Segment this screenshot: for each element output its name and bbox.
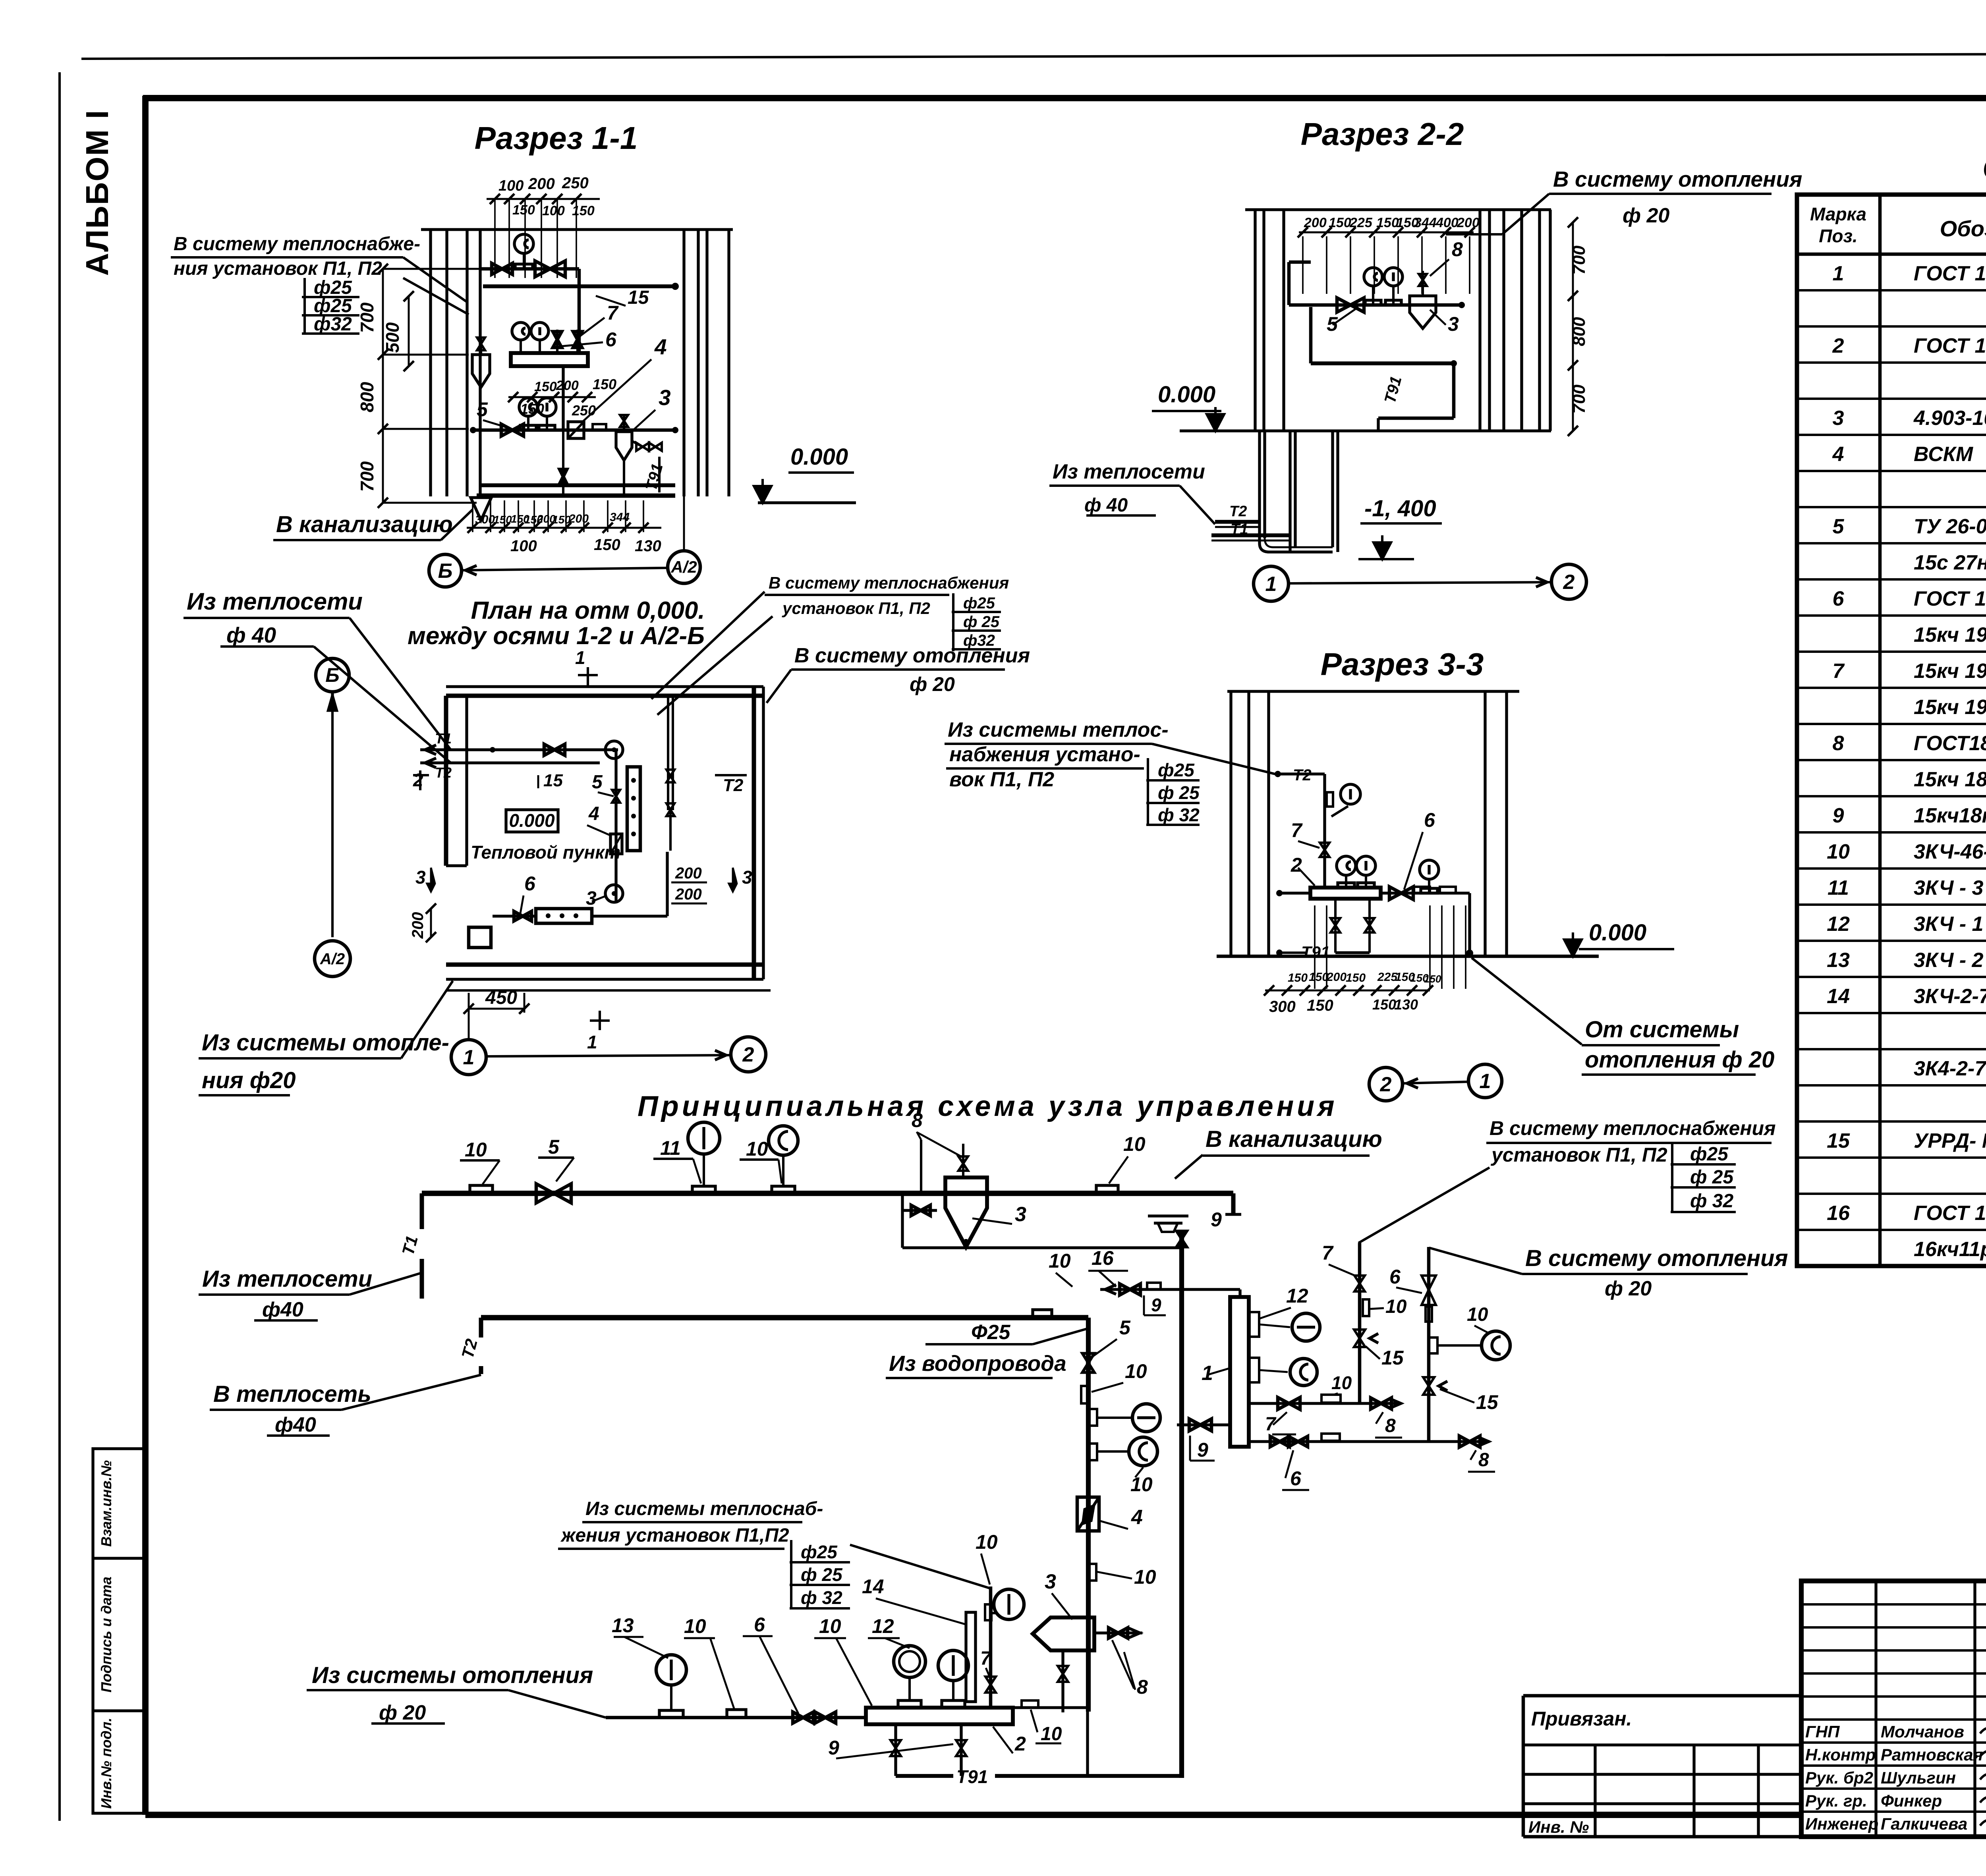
specification table grid: [1797, 195, 1986, 1266]
svg-text:ТУ 26-03-1221-79: ТУ 26-03-1221-79: [1914, 515, 1986, 538]
svg-text:9: 9: [828, 1737, 839, 1759]
svg-text:В канализацию: В канализацию: [1206, 1126, 1382, 1152]
pipe R1 from collector: [1249, 1402, 1401, 1405]
svg-text:Инв. №: Инв. №: [1528, 1818, 1589, 1836]
bypass with valve: [901, 1191, 904, 1248]
svg-text:10: 10: [1467, 1304, 1488, 1325]
component 4 (meter): [1077, 1497, 1099, 1531]
pipe R2 from collector: [1249, 1440, 1489, 1443]
bottom dimension chain: [467, 527, 661, 529]
svg-text:Из системы теплоснаб-: Из системы теплоснаб-: [585, 1498, 823, 1519]
svg-text:400: 400: [1435, 215, 1459, 230]
svg-text:6: 6: [524, 872, 536, 895]
svg-text:ф 20: ф 20: [1623, 204, 1669, 227]
svg-text:3КЧ - 2 - 75: 3КЧ - 2 - 75: [1914, 949, 1986, 972]
dirt trap left: [472, 355, 490, 387]
svg-text:вок П1, П2: вок П1, П2: [949, 768, 1054, 791]
dirt trap 3 bottom (left point): [1033, 1617, 1094, 1650]
title block left grid: [1874, 1581, 1877, 1837]
section 1-1 floor: [477, 494, 675, 498]
below floor pipes 2-2: [1258, 431, 1261, 543]
gauge 13: [659, 1710, 683, 1718]
svg-text:2: 2: [742, 1043, 754, 1066]
svg-text:12: 12: [1286, 1285, 1308, 1307]
svg-text:6: 6: [1833, 587, 1845, 610]
manifold 2: [866, 1708, 1013, 1724]
svg-text:ф40: ф40: [275, 1413, 316, 1436]
dirt trap 2-2: [1410, 296, 1436, 328]
section 2-2 pipe2: [1311, 361, 1454, 365]
projection lines: [1314, 905, 1316, 989]
svg-text:ф25: ф25: [963, 594, 995, 612]
svg-text:2: 2: [1380, 1073, 1392, 1096]
svg-text:500: 500: [382, 322, 403, 353]
svg-text:Марка: Марка: [1810, 204, 1866, 224]
drain funnel below floor: [471, 498, 491, 520]
svg-text:100: 100: [510, 537, 537, 555]
svg-text:В систему отопления: В систему отопления: [1553, 167, 1802, 191]
svg-text:ф 32: ф 32: [801, 1587, 842, 1608]
svg-text:ГОСТ 10704-76*: ГОСТ 10704-76*: [1914, 334, 1986, 357]
bottom drain pipe 1-1: [481, 483, 675, 487]
svg-text:225: 225: [1349, 215, 1373, 230]
svg-text:1: 1: [1265, 573, 1277, 596]
plan collector: [627, 767, 640, 851]
svg-text:Из теплосети: Из теплосети: [1053, 460, 1205, 483]
svg-text:5: 5: [592, 772, 603, 793]
svg-text:15: 15: [1381, 1347, 1404, 1369]
svg-text:100: 100: [542, 203, 565, 218]
svg-text:130: 130: [1394, 996, 1418, 1013]
svg-text:8: 8: [1478, 1449, 1489, 1471]
svg-text:Т2: Т2: [1229, 503, 1247, 520]
tick 10: [1081, 1386, 1088, 1403]
svg-text:ГОСТ 19501 - 74: ГОСТ 19501 - 74: [1914, 1202, 1986, 1225]
svg-text:16: 16: [1092, 1247, 1114, 1269]
plan right pipes: [667, 696, 669, 810]
3-3 bubbles: [1369, 1067, 1403, 1101]
valve below trap: [1061, 1650, 1064, 1712]
svg-text:ф 20: ф 20: [1605, 1277, 1652, 1300]
svg-text:ф40: ф40: [262, 1298, 303, 1321]
section 2-2 ceiling: [1245, 208, 1551, 211]
plan pipe size stack: [952, 593, 954, 651]
right pipe size stack: [1671, 1143, 1673, 1212]
svg-text:250: 250: [562, 174, 589, 192]
svg-text:Молчанов: Молчанов: [1881, 1722, 1964, 1741]
pipe1 gauges 2-2: [1372, 286, 1374, 305]
tick and gauge: [1327, 792, 1333, 807]
svg-text:3: 3: [586, 888, 597, 909]
svg-text:ф 25: ф 25: [801, 1564, 843, 1585]
svg-text:15: 15: [543, 771, 563, 790]
svg-text:10: 10: [1134, 1566, 1156, 1588]
svg-text:Рук. гр.: Рук. гр.: [1805, 1791, 1867, 1810]
svg-text:344: 344: [610, 511, 630, 524]
svg-text:Тепловой пункт: Тепловой пункт: [471, 842, 620, 863]
T91 stub: [1276, 950, 1283, 956]
inner frame: [143, 95, 1986, 101]
svg-text:1: 1: [1833, 262, 1844, 285]
axis bubbles B A2: [429, 554, 462, 587]
svg-text:План на отм 0,000.: План на отм 0,000.: [471, 597, 705, 624]
svg-text:Т1: Т1: [1231, 521, 1248, 538]
svg-text:ф 20: ф 20: [379, 1701, 426, 1724]
svg-text:ВСКМ: ВСКМ: [1914, 443, 1974, 466]
svg-text:6: 6: [754, 1614, 765, 1636]
shtucer on T2: [1033, 1310, 1052, 1317]
lower gauges: [527, 417, 529, 430]
valve 9 stub to collector: [1177, 1423, 1230, 1426]
svg-text:8: 8: [1137, 1676, 1148, 1698]
tick 10 bottom: [727, 1710, 746, 1718]
svg-text:150: 150: [593, 376, 616, 392]
svg-text:В канализацию: В канализацию: [276, 511, 453, 537]
svg-text:7: 7: [607, 302, 619, 324]
title block frame: [1801, 1581, 1986, 1837]
svg-text:3: 3: [742, 867, 752, 888]
svg-text:10: 10: [819, 1615, 841, 1637]
svg-text:В систему теплоснабже-: В систему теплоснабже-: [174, 234, 420, 255]
svg-text:9: 9: [1151, 1295, 1161, 1315]
water riser corner: [1086, 1318, 1091, 1712]
privyazan block: [1523, 1694, 1801, 1698]
svg-text:Б: Б: [438, 560, 453, 583]
svg-text:5: 5: [477, 398, 488, 421]
dirt trap 3 schema top: [945, 1177, 987, 1247]
svg-text:15: 15: [1476, 1391, 1499, 1413]
left dimension chain: [382, 269, 384, 503]
svg-text:ГНП: ГНП: [1805, 1722, 1840, 1741]
gauges above manifold 2: [898, 1700, 921, 1708]
gauge dash: [1088, 1409, 1097, 1426]
schema pipe size stack: [790, 1540, 792, 1608]
tick 10 lower: [1089, 1564, 1096, 1581]
svg-text:Шульгин: Шульгин: [1881, 1768, 1956, 1787]
svg-text:Разрез 2-2: Разрез 2-2: [1301, 116, 1464, 152]
svg-text:Принципиальная схема узла у: Принципиальная схема узла управления: [638, 1090, 1338, 1122]
section 2-2 left wall: [1254, 210, 1256, 431]
svg-text:Ратновская: Ратновская: [1881, 1745, 1983, 1764]
svg-text:150: 150: [572, 203, 595, 218]
riser A: [1358, 1243, 1362, 1403]
gauges above manifold: [1345, 876, 1347, 888]
svg-text:-1, 400: -1, 400: [1364, 496, 1436, 521]
collector ticks and gauges: [1249, 1312, 1259, 1337]
svg-text:УРРД- М: УРРД- М: [1914, 1129, 1986, 1152]
corner to sewer: [1231, 1193, 1236, 1214]
component 14 bar: [966, 1612, 976, 1702]
svg-text:150: 150: [534, 379, 557, 394]
svg-text:2: 2: [1014, 1733, 1026, 1755]
svg-text:ф 32: ф 32: [1690, 1191, 1734, 1212]
svg-text:Из системы теплос-: Из системы теплос-: [948, 718, 1169, 741]
svg-text:10: 10: [1130, 1473, 1153, 1496]
svg-text:10: 10: [1123, 1133, 1146, 1155]
svg-text:3КЧ - 1 - 75: 3КЧ - 1 - 75: [1914, 913, 1986, 936]
section 2-2 pipe1: [1289, 303, 1462, 307]
svg-text:15: 15: [628, 287, 649, 308]
svg-text:15кч 19п2: 15кч 19п2: [1914, 660, 1986, 683]
lower pipe: [473, 428, 675, 432]
svg-text:130: 130: [635, 537, 661, 555]
shtucer 10 on top pipe: [470, 1185, 493, 1193]
pipe T2 long: [481, 1315, 1088, 1320]
side stub with valve 8: [1094, 1631, 1142, 1634]
svg-text:300: 300: [1269, 998, 1296, 1015]
svg-text:1: 1: [587, 1032, 597, 1052]
svg-text:Инв.№ подл.: Инв.№ подл.: [98, 1718, 114, 1808]
svg-text:13: 13: [612, 1614, 634, 1637]
svg-text:4: 4: [1832, 443, 1844, 466]
svg-text:14: 14: [1827, 985, 1850, 1008]
leaders from plan label down: [651, 592, 765, 699]
svg-text:ф 32: ф 32: [1158, 805, 1200, 825]
right dimension chain 2-2: [1572, 222, 1574, 431]
svg-text:2: 2: [1291, 854, 1302, 876]
svg-text:12: 12: [872, 1615, 894, 1637]
svg-text:150: 150: [1329, 215, 1351, 230]
T91 bottom loop: [896, 1774, 953, 1778]
svg-text:200: 200: [568, 512, 589, 525]
svg-text:В систему отопления: В систему отопления: [794, 644, 1030, 667]
svg-text:150: 150: [1376, 215, 1399, 230]
svg-text:6: 6: [1290, 1467, 1302, 1490]
svg-text:ГОСТ 10704 - 76*: ГОСТ 10704 - 76*: [1914, 262, 1986, 285]
svg-text:Привязан.: Привязан.: [1531, 1708, 1632, 1730]
manifold valves 6 7: [556, 330, 558, 353]
svg-text:200: 200: [528, 175, 555, 193]
leaders from label to pipes: [403, 257, 467, 302]
pipe size stack f25 f25 f32: [303, 278, 306, 333]
svg-text:АЛЬБОМ I: АЛЬБОМ I: [79, 109, 115, 276]
3-3 dim chain: [1265, 990, 1430, 992]
svg-text:между осями 1-2 и А/2-Б: между осями 1-2 и А/2-Б: [408, 622, 705, 650]
svg-text:2: 2: [413, 770, 423, 790]
svg-text:300: 300: [475, 513, 495, 526]
svg-text:150: 150: [512, 203, 535, 218]
svg-text:1: 1: [463, 1046, 475, 1069]
top dim numbers 2-2: [1299, 232, 1474, 234]
svg-text:Б: Б: [325, 664, 339, 686]
svg-text:ф25: ф25: [801, 1542, 838, 1562]
3-3 inlet pipe: [1278, 772, 1325, 775]
svg-text:ф 25: ф 25: [1158, 782, 1200, 803]
svg-text:отопления ф 20: отопления ф 20: [1585, 1047, 1774, 1073]
plan walls top: [446, 685, 763, 688]
shtucer tick: [593, 424, 606, 430]
svg-text:установок П1, П2: установок П1, П2: [1490, 1144, 1667, 1166]
svg-text:16кч11р: 16кч11р: [1914, 1238, 1986, 1261]
svg-text:0.000: 0.000: [509, 810, 555, 831]
svg-text:3К4-2-75: 3К4-2-75: [1914, 1057, 1986, 1080]
svg-text:200: 200: [675, 886, 702, 903]
svg-text:10: 10: [1385, 1296, 1407, 1317]
svg-text:0.000: 0.000: [1589, 920, 1646, 946]
svg-text:700: 700: [1569, 384, 1589, 414]
svg-text:3: 3: [1015, 1203, 1026, 1226]
svg-text:150: 150: [594, 536, 620, 554]
plan bottom wall: [446, 963, 763, 967]
svg-text:15кч18п1: 15кч18п1: [1914, 804, 1986, 827]
riser to manifold: [578, 269, 581, 353]
gauge 10 second: [772, 1186, 795, 1193]
svg-text:10: 10: [1125, 1360, 1147, 1382]
svg-text:3: 3: [415, 867, 426, 888]
svg-text:В систему отопления: В систему отопления: [1525, 1245, 1788, 1271]
svg-text:200: 200: [675, 865, 702, 882]
below manifold stubs: [1334, 899, 1337, 953]
svg-text:1: 1: [575, 647, 585, 668]
bottom pipe: [606, 1716, 866, 1720]
svg-text:8: 8: [1833, 732, 1844, 755]
svg-text:9: 9: [1211, 1208, 1222, 1231]
riser 14: [989, 1586, 993, 1708]
svg-text:150: 150: [552, 513, 571, 526]
section 2-2 floor: [1180, 429, 1551, 432]
water meter 4: [568, 422, 584, 438]
svg-text:Из теплосети: Из теплосети: [202, 1266, 372, 1292]
svg-text:0.000: 0.000: [790, 444, 848, 470]
svg-text:1: 1: [1480, 1070, 1491, 1093]
svg-text:Спецификация: Спецификация: [1982, 151, 1986, 185]
svg-text:10: 10: [465, 1139, 487, 1161]
svg-text:Т2: Т2: [435, 764, 452, 781]
svg-text:344: 344: [1414, 215, 1437, 230]
svg-text:700: 700: [357, 302, 377, 333]
plan left axis line: [316, 658, 349, 692]
main drain vertical: [1179, 1232, 1184, 1778]
svg-text:2: 2: [1832, 334, 1844, 357]
svg-text:150: 150: [493, 513, 512, 526]
svg-text:жения установок П1,П2: жения установок П1,П2: [560, 1525, 789, 1546]
bubbles 1 2 2-2: [1254, 566, 1289, 601]
svg-text:5: 5: [1119, 1316, 1131, 1339]
3-3 floor: [1217, 955, 1599, 958]
dim 450: [469, 1008, 524, 1010]
svg-text:набжения устано-: набжения устано-: [949, 743, 1140, 766]
upper pipe with valves: [481, 267, 579, 271]
sewer funnel: [1148, 1214, 1188, 1217]
svg-text:100: 100: [498, 178, 524, 194]
svg-text:Из системы отопления: Из системы отопления: [312, 1662, 593, 1688]
svg-text:200: 200: [556, 378, 579, 393]
plan T1 pipe: [420, 748, 618, 751]
section 1-1 ceiling line: [421, 228, 733, 231]
svg-text:ф 20: ф 20: [910, 673, 955, 695]
svg-text:150: 150: [1424, 973, 1441, 985]
svg-text:2: 2: [1563, 571, 1575, 594]
riser to floor with valve: [562, 430, 564, 496]
svg-text:установок П1, П2: установок П1, П2: [782, 599, 930, 618]
svg-text:ф25: ф25: [1158, 760, 1195, 780]
svg-text:ния установок П1, П2: ния установок П1, П2: [174, 258, 382, 279]
leader diagonal: [1358, 1168, 1489, 1243]
svg-text:4: 4: [654, 334, 667, 359]
svg-text:200: 200: [1457, 215, 1480, 230]
svg-text:10: 10: [976, 1531, 998, 1553]
plan left wall: [444, 696, 448, 866]
svg-text:Ф25: Ф25: [971, 1321, 1011, 1344]
svg-text:Обозначение: Обозначение: [1940, 216, 1986, 241]
svg-text:ф 40: ф 40: [1084, 495, 1128, 516]
svg-text:Рук. бр2: Рук. бр2: [1805, 1768, 1873, 1787]
valve 7 on riser: [985, 1677, 996, 1693]
section 2-2 pipe3: [1378, 417, 1454, 420]
svg-text:800: 800: [357, 382, 377, 412]
svg-text:8: 8: [1385, 1415, 1396, 1436]
svg-text:4.903-10 в.8: 4.903-10 в.8: [1913, 407, 1986, 430]
svg-text:150: 150: [1346, 971, 1366, 984]
top dimension chain: [487, 198, 600, 200]
svg-text:ГОСТ 18162-72*: ГОСТ 18162-72*: [1914, 587, 1986, 610]
svg-text:6: 6: [1424, 809, 1435, 831]
svg-text:В систему теплоснабжения: В систему теплоснабжения: [1489, 1117, 1776, 1139]
svg-text:ф25: ф25: [1690, 1144, 1729, 1165]
svg-text:3: 3: [1833, 407, 1844, 430]
svg-text:Т2: Т2: [723, 776, 744, 795]
svg-text:10: 10: [1049, 1250, 1071, 1272]
svg-text:7: 7: [980, 1648, 992, 1669]
svg-text:В теплосеть: В теплосеть: [213, 1381, 371, 1407]
gauge on riser B: [1429, 1338, 1437, 1353]
valve 5 riser: [1082, 1353, 1094, 1372]
below manifold stubs valves 9: [894, 1724, 897, 1776]
upper manifold: [511, 353, 588, 366]
dirt trap right: [616, 432, 632, 460]
section 1-1 right wall: [682, 230, 685, 496]
svg-text:10: 10: [1331, 1372, 1352, 1393]
impulse tap: [920, 1140, 922, 1191]
collector 1: [1230, 1297, 1249, 1447]
left corner pipe 2-2: [1287, 262, 1291, 305]
svg-text:Из теплосети: Из теплосети: [187, 588, 363, 615]
plan T2 pipe: [420, 761, 600, 764]
leader to riser 14: [850, 1545, 991, 1588]
svg-text:15кч 19п2: 15кч 19п2: [1914, 623, 1986, 647]
svg-text:Взам.инв.№: Взам.инв.№: [98, 1460, 114, 1547]
svg-text:150: 150: [1307, 997, 1333, 1014]
svg-text:7: 7: [1291, 819, 1303, 841]
svg-text:6: 6: [605, 328, 617, 351]
svg-text:15с 27нж1: 15с 27нж1: [1914, 551, 1986, 574]
svg-text:10: 10: [1041, 1724, 1062, 1745]
outer border top: [81, 53, 1986, 59]
svg-text:700: 700: [1569, 245, 1589, 275]
svg-text:Н.контр: Н.контр: [1805, 1745, 1876, 1764]
svg-text:12: 12: [1827, 913, 1850, 936]
svg-text:ф 25: ф 25: [963, 613, 1000, 631]
svg-text:От системы: От системы: [1585, 1017, 1739, 1042]
collector inlet from top: [1238, 1289, 1241, 1297]
section mark 1 top: [587, 667, 589, 687]
leader 2-2 heating: [1502, 194, 1549, 234]
0.000 box: [506, 810, 558, 832]
section 3-3 left wall: [1229, 691, 1232, 956]
plan bottom bubbles: [451, 1040, 486, 1075]
section 2-2 right wall: [1478, 210, 1481, 431]
svg-text:0.000: 0.000: [1158, 382, 1215, 407]
svg-text:800: 800: [1569, 317, 1589, 346]
svg-text:ф 40: ф 40: [226, 623, 276, 647]
pipe left of manifold: [1276, 890, 1283, 896]
middle dimension chain: [508, 396, 596, 398]
svg-text:4: 4: [588, 803, 599, 824]
svg-text:150: 150: [1372, 996, 1396, 1013]
svg-text:Поз.: Поз.: [1819, 226, 1857, 246]
svg-text:250: 250: [572, 402, 596, 419]
svg-text:10: 10: [1827, 840, 1850, 863]
